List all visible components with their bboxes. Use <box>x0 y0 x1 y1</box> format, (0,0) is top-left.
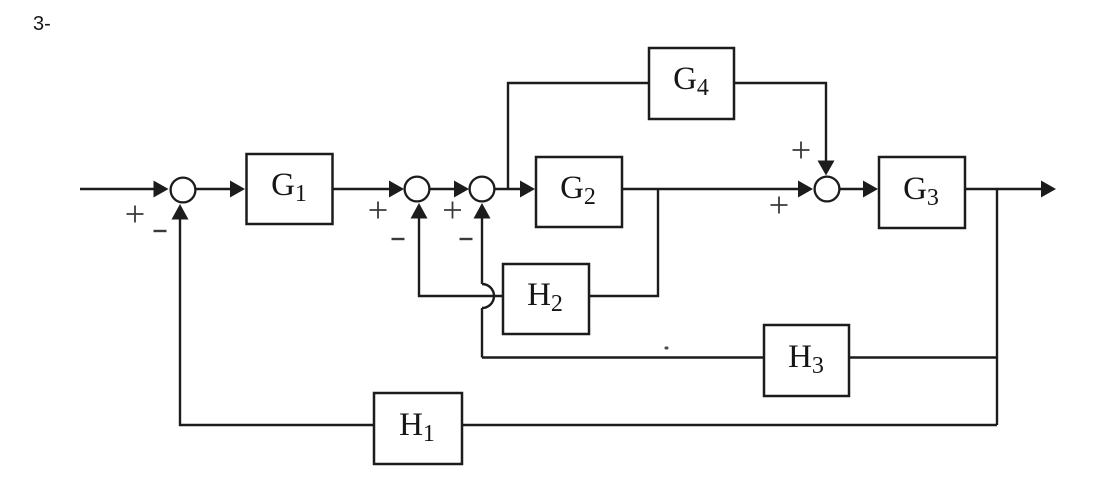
wire: H2 output left then up into S2 <box>411 203 504 296</box>
plus sign at S3 <box>444 202 461 219</box>
plus sign left of S4 <box>771 197 788 214</box>
wire: G1 to S2 <box>333 181 405 198</box>
wire: S2 to S3 <box>430 181 470 198</box>
wire: S4 to G3 <box>840 181 879 198</box>
stray ink speck <box>665 347 669 350</box>
summing junction S2 <box>405 177 430 202</box>
summing junction S4 <box>815 177 840 202</box>
wire: H1 feedback from right vertical to H1 <box>462 424 997 426</box>
block G1 <box>247 154 333 224</box>
block G3 <box>879 157 965 228</box>
block G2 <box>536 157 622 227</box>
minus sign at S1 <box>154 230 167 232</box>
wire: H1 output left then up into S1 <box>172 204 375 425</box>
block H2 <box>503 264 589 334</box>
block G4 <box>649 48 734 119</box>
wire: branch up to G4 input <box>508 83 649 189</box>
wire: H2 input takeoff from G2 output <box>589 189 658 296</box>
wire: H3 feedback from right vertical to H3 <box>849 356 997 358</box>
wire: output takeoff down the right side <box>996 189 998 425</box>
minus sign at S3 <box>460 238 473 240</box>
minus sign at S2 <box>392 238 405 240</box>
wire: H3 output left then up into S3 with hop over H2 line <box>474 203 765 358</box>
wire: input signal <box>80 181 169 198</box>
svg-text:3-: 3- <box>33 13 51 35</box>
plus sign at S1 <box>127 206 144 223</box>
wire: G2 to S4 with H2 takeoff node <box>622 181 813 198</box>
summing junction S3 <box>470 177 495 202</box>
wire: S1 to G1 <box>196 181 246 198</box>
block H1 <box>374 393 462 464</box>
wire: S3 to G2 with branch node to G4 <box>495 181 536 198</box>
wire: G4 output down into S4 <box>734 83 835 176</box>
plus sign at S2 <box>370 202 387 219</box>
label "3-" <box>33 13 51 35</box>
plus sign above S4 <box>793 142 810 159</box>
summing junction S1 <box>171 178 196 203</box>
wire: G3 to output with takeoff node <box>965 181 1056 198</box>
block H3 <box>764 325 849 396</box>
